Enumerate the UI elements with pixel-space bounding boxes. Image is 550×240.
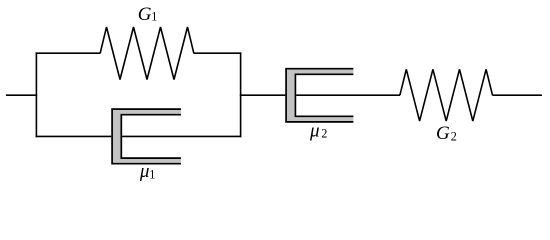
wire: left vertical of parallel branch (node A) — [35, 52, 37, 137]
spring G1 (zigzag) — [100, 27, 194, 80]
dashpot M1 outer outline — [112, 109, 181, 164]
wire: top rail left segment — [36, 52, 101, 54]
wire: left lead into node A — [6, 94, 37, 96]
wire: bottom rail through dashpot mu1 — [36, 135, 242, 137]
dashpot M1 inner outline — [121, 115, 181, 158]
svg-text:G1: G1 — [138, 4, 158, 25]
wire: right vertical of parallel branch (node B) — [240, 52, 242, 137]
dashpot M2 inner outline — [295, 74, 353, 116]
dashpot M2 outer outline — [286, 69, 353, 122]
dashpot M1 body fill — [111, 108, 181, 164]
wire: middle lead from node B to dashpot mu2 — [240, 94, 400, 96]
svg-text:G2: G2 — [436, 123, 457, 144]
svg-text:μ2: μ2 — [309, 121, 327, 142]
dashpot M2 body fill — [285, 68, 353, 123]
spring G2 (zigzag) — [400, 69, 493, 121]
wire: right lead out — [492, 94, 542, 96]
wire: top rail right segment — [194, 52, 242, 54]
